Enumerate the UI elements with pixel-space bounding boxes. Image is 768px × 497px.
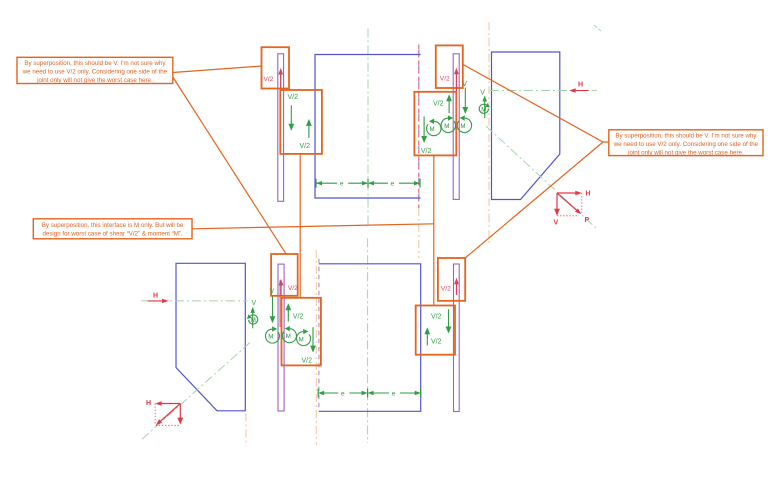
svg-text:M: M	[268, 334, 273, 341]
svg-text:V: V	[252, 300, 257, 307]
column centerline top-right (orange dash-dot)	[488, 22, 490, 245]
centerline plate top-right (red-blue dashed)	[418, 45, 420, 259]
svg-text:V/2: V/2	[288, 94, 299, 101]
label V/2 red top-left	[264, 76, 274, 83]
red arrow V/2 top-right plate	[454, 68, 459, 96]
centerline plate bottom-left (orange dash-dot)	[315, 250, 317, 445]
svg-text:V/2: V/2	[421, 148, 432, 155]
label V/2 green b	[300, 143, 311, 150]
svg-text:V: V	[480, 90, 485, 97]
moment circle MB	[297, 329, 311, 346]
weld interface box top-left (orange)	[280, 90, 322, 154]
stray green dash top-right	[594, 25, 601, 31]
label MA	[286, 333, 291, 340]
H arrow top-right (red)	[569, 82, 588, 93]
svg-text:e: e	[392, 390, 396, 397]
plate bottom-right (purple)	[454, 264, 460, 412]
connector top-right interface to leader	[433, 155, 435, 305]
svg-text:V/2: V/2	[431, 339, 442, 346]
V with moment circle symbol bottom	[247, 300, 258, 328]
leader callout1 to bottom-left box	[173, 77, 286, 254]
plate bottom-left (purple)	[278, 264, 284, 411]
column flange bottom-left (blue pentagon)	[176, 263, 245, 411]
centerline beam top (vertical green dash-dot)	[367, 29, 369, 227]
vector diagram bottom-left (red)	[146, 400, 183, 425]
svg-text:joint only will not give the w: joint only will not give the worst case …	[627, 149, 744, 156]
svg-text:P: P	[585, 217, 590, 224]
svg-text:V/2: V/2	[441, 285, 451, 292]
svg-text:M: M	[444, 123, 449, 130]
svg-text:H: H	[586, 191, 591, 198]
beam web bottom (blue, open left)	[319, 264, 421, 412]
green arrow V/2 down g	[446, 309, 452, 333]
green arrow V/2 down a	[288, 105, 294, 130]
label V/2 green c	[433, 101, 444, 108]
connector top-left interface to leader	[299, 154, 301, 298]
dimension e-e bottom (green)	[318, 389, 421, 398]
green arrow V down	[462, 88, 468, 114]
callout box 3 right (orange)	[609, 130, 763, 157]
svg-text:M: M	[460, 123, 465, 130]
svg-text:V/2: V/2	[302, 357, 313, 364]
label M3	[460, 123, 465, 130]
svg-text:H: H	[578, 82, 583, 89]
svg-text:we need to use V/2 only. Consi: we need to use V/2 only. Considering one…	[22, 68, 168, 75]
svg-text:V/2: V/2	[264, 76, 274, 83]
label M2	[444, 123, 449, 130]
label V/2 green h	[431, 339, 442, 346]
V with moment circle symbol top	[479, 90, 490, 119]
label V green bottom	[270, 289, 275, 296]
svg-text:e: e	[341, 390, 345, 397]
green arrow M down	[421, 116, 427, 143]
green horizontal centerline bottom	[141, 300, 247, 302]
hidden edge bottom beam (purple dashed)	[318, 259, 320, 412]
moment circle MC (left of box)	[265, 326, 279, 343]
green arrow V/2 up g	[424, 327, 430, 345]
svg-text:V/2: V/2	[288, 285, 298, 292]
red arrow V/2 bottom-right plate	[454, 278, 459, 295]
green diagonal centerline top-right	[486, 126, 597, 229]
column centerline bottom-left (orange dash-dot)	[245, 414, 247, 445]
svg-text:V/2: V/2	[440, 75, 450, 82]
label V/2 green f	[302, 357, 313, 364]
moment interface box top-right (orange)	[414, 92, 456, 156]
green arrow V/2 down e	[310, 327, 316, 352]
dimension e-e top (green)	[316, 179, 420, 188]
vector diagram top-right (red)	[554, 191, 591, 227]
svg-text:V: V	[270, 289, 275, 296]
column flange top-right (blue pentagon)	[492, 52, 560, 200]
svg-text:V: V	[462, 81, 467, 88]
label MB	[299, 337, 304, 344]
label M1	[430, 126, 435, 133]
shear V/2 box bottom-left (orange)	[271, 254, 298, 296]
label V/2 red top-right	[440, 75, 450, 82]
label MC	[268, 334, 273, 341]
label V/2 red bottom-right	[441, 285, 451, 292]
svg-text:M: M	[430, 126, 435, 133]
green arrow V down bottom	[270, 296, 276, 323]
callout box 2 mid-left (orange)	[33, 219, 192, 239]
H arrow bottom-left (red)	[148, 293, 169, 304]
moment circle M3 (right of box)	[457, 115, 471, 132]
centerline beam bottom (vertical green dash-dot)	[367, 238, 369, 443]
svg-text:e: e	[391, 181, 395, 188]
green arrow V/2 up c	[446, 94, 452, 113]
callout box 1 top-left (orange)	[17, 57, 173, 84]
leader callout1 to top-left box	[173, 66, 262, 73]
leader callout3 to top-right box	[463, 65, 609, 143]
label V/2 green g	[431, 314, 442, 321]
svg-text:V/2: V/2	[293, 314, 304, 321]
shear V/2 box bottom-right (orange)	[438, 258, 465, 301]
label V/2 red bottom-left	[288, 285, 298, 292]
svg-text:M: M	[286, 333, 291, 340]
plate top-right (purple)	[453, 54, 459, 200]
svg-text:V: V	[554, 220, 559, 227]
leader callout2 horizontal	[192, 224, 434, 229]
green horizontal centerline top	[490, 90, 597, 92]
svg-text:H: H	[146, 400, 151, 407]
svg-text:V/2: V/2	[433, 101, 444, 108]
moment interface box bottom-left (orange)	[282, 298, 321, 366]
label V green top	[462, 81, 467, 88]
label V/2 green e	[293, 314, 304, 321]
red arrow V/2 top-left plate	[278, 68, 283, 89]
moment circle M1	[427, 119, 441, 136]
svg-text:V/2: V/2	[431, 314, 442, 321]
svg-text:By superposition, this should: By superposition, this should be V. I’m …	[615, 132, 757, 139]
green arrow V/2 up a	[306, 119, 312, 138]
weld interface box bottom-right (orange)	[416, 306, 455, 355]
svg-text:M: M	[299, 337, 304, 344]
svg-text:M: M	[481, 106, 486, 113]
label V/2 green d	[421, 148, 432, 155]
shear V/2 box top-right (orange)	[436, 45, 463, 88]
svg-text:H: H	[153, 293, 158, 300]
svg-text:e: e	[340, 181, 344, 188]
red centerline in plate bottom-left	[279, 280, 281, 327]
svg-text:V/2: V/2	[300, 143, 311, 150]
svg-text:joint only will not give the w: joint only will not give the worst case …	[36, 77, 153, 84]
label V/2 green a	[288, 94, 299, 101]
green diagonal centerline bottom-left	[140, 343, 250, 442]
svg-text:M: M	[251, 317, 256, 324]
green arrow V/2 up e	[285, 303, 291, 321]
moment circle MA	[282, 326, 296, 343]
red arrow V/2 bottom-left plate	[279, 279, 284, 296]
svg-text:By superposition, this interfa: By superposition, this interface is M on…	[42, 222, 184, 229]
svg-text:design for worst case of shear: design for worst case of shear “V/2” & m…	[42, 230, 183, 237]
beam web top (blue, open right)	[315, 55, 421, 199]
plate top-left (purple)	[278, 54, 284, 202]
leader callout3 to bottom-right box	[465, 142, 603, 258]
svg-text:we need to use V/2 only. Consi: we need to use V/2 only. Considering one…	[613, 141, 759, 148]
moment circle M2	[441, 115, 455, 132]
svg-text:By superposition, this should: By superposition, this should be V. I’m …	[24, 60, 166, 67]
shear V/2 box top-left (orange)	[262, 47, 290, 88]
